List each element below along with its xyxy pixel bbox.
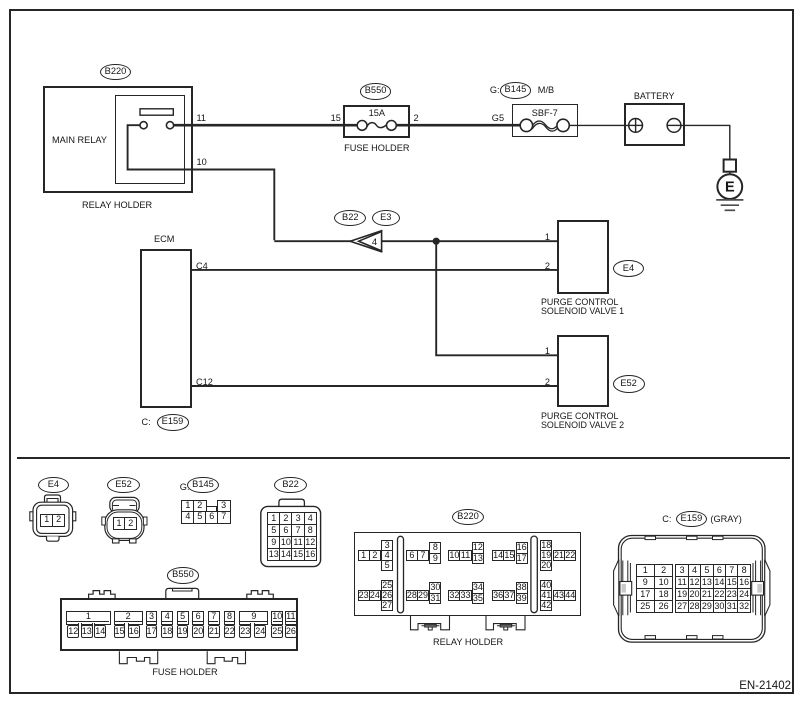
svg-text:4: 4 — [372, 237, 377, 248]
svg-text:E: E — [725, 179, 735, 195]
